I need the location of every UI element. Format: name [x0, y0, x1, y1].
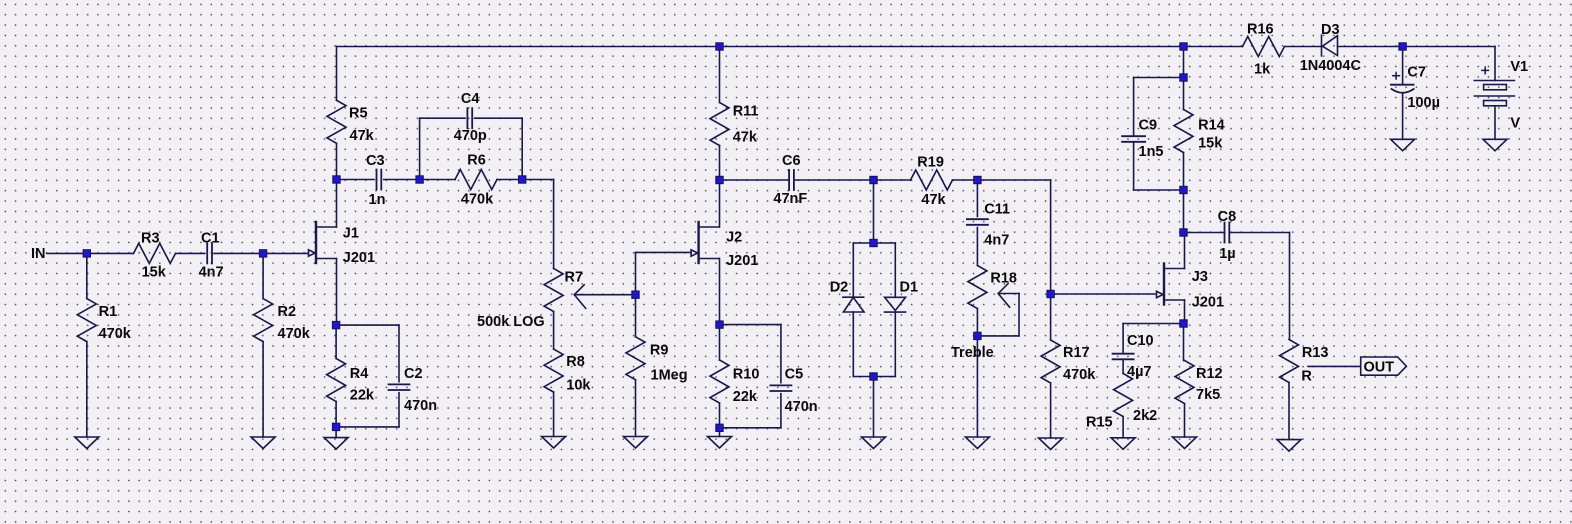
label R9 designator — [650, 342, 669, 358]
resistor R9 — [626, 295, 645, 437]
label C4 value 470p — [454, 128, 487, 144]
label R10 designator — [733, 367, 760, 383]
svg-text:470n: 470n — [785, 399, 818, 415]
resistor R5 — [327, 47, 346, 180]
label R4 value 22k — [350, 388, 375, 404]
svg-text:470k: 470k — [1063, 367, 1096, 383]
svg-text:C1: C1 — [201, 231, 220, 247]
svg-text:Treble: Treble — [951, 345, 994, 361]
svg-text:V: V — [1510, 116, 1520, 132]
svg-text:J201: J201 — [1192, 295, 1224, 311]
label J3 designator — [1192, 269, 1208, 285]
resistor R10 — [710, 325, 729, 428]
svg-text:500k LOG: 500k LOG — [477, 314, 545, 330]
resistor R19 — [874, 170, 978, 190]
svg-text:15k: 15k — [1198, 136, 1223, 152]
label R1 value 470k — [99, 326, 132, 342]
svg-text:R9: R9 — [650, 342, 669, 358]
label D1 designator — [900, 280, 919, 296]
node J1 source junction — [332, 321, 339, 328]
capacitor C10 — [1113, 324, 1184, 374]
label J2 designator — [726, 230, 742, 246]
label C7 designator — [1407, 65, 1426, 81]
svg-text:C3: C3 — [366, 153, 385, 169]
ground diodes — [862, 437, 886, 449]
svg-text:R19: R19 — [917, 154, 944, 170]
label R13 designator — [1302, 345, 1329, 361]
svg-text:1n: 1n — [369, 192, 386, 208]
ground R15 — [1111, 438, 1135, 450]
resistor R6 — [420, 170, 523, 190]
transistor J2 — [691, 222, 719, 263]
node R6 right junction — [519, 176, 526, 183]
label C5 value 470n — [785, 399, 818, 415]
label J2 value J201 — [726, 253, 758, 269]
label R13 value R — [1301, 368, 1312, 384]
svg-text:R8: R8 — [566, 354, 585, 370]
svg-text:4µ7: 4µ7 — [1127, 364, 1151, 380]
label R3 value 15k — [142, 265, 167, 281]
svg-text:1N4004C: 1N4004C — [1300, 58, 1362, 74]
label C1 designator — [201, 231, 220, 247]
label R2 value 470k — [278, 326, 311, 342]
svg-text:22k: 22k — [733, 389, 758, 405]
resistor R2 — [254, 253, 273, 437]
label J3 value J201 — [1192, 295, 1224, 311]
wire gate J1 — [263, 252, 308, 254]
label R9 value 1Meg — [651, 368, 688, 384]
ground R9 — [624, 437, 648, 449]
label C1 value 4n7 — [199, 265, 224, 281]
label R16 designator — [1247, 22, 1274, 38]
label R6 value 470k — [461, 192, 494, 208]
node diode top junction — [870, 239, 877, 246]
wire R14 to C8 node — [1183, 190, 1185, 233]
potentiometer R7 — [544, 269, 563, 312]
capacitor C8 — [1184, 223, 1290, 340]
svg-text:7k5: 7k5 — [1196, 387, 1220, 403]
wire J3 source down — [1184, 300, 1186, 324]
svg-text:100µ: 100µ — [1407, 95, 1440, 111]
svg-text:C11: C11 — [984, 202, 1010, 218]
input net wire IN — [47, 252, 87, 254]
label J1 designator — [343, 226, 359, 242]
svg-text:R3: R3 — [141, 231, 160, 247]
label V1 designator — [1510, 59, 1528, 75]
capacitor C5 — [720, 325, 792, 428]
node R19 right junction — [974, 176, 981, 183]
label R19 value 47k — [921, 192, 946, 208]
ground R2 — [251, 437, 275, 449]
node A junction (R2 top) — [259, 250, 266, 257]
label C3 designator — [366, 153, 385, 169]
resistor R1 — [77, 253, 96, 437]
wire to J3 gate — [1051, 293, 1157, 295]
resistor R15 — [1114, 374, 1133, 438]
label R11 designator — [733, 104, 759, 120]
svg-text:R2: R2 — [278, 304, 297, 320]
node R14 bottom junction — [1180, 186, 1187, 193]
plus sign C7 — [1393, 72, 1400, 79]
node C6 right junction — [870, 176, 877, 183]
wire J2 source down — [719, 259, 721, 325]
capacitor C11 — [967, 180, 988, 266]
svg-text:C8: C8 — [1218, 209, 1237, 225]
label R8 designator — [566, 354, 585, 370]
svg-text:470k: 470k — [461, 192, 494, 208]
node J3 gate junction — [1047, 290, 1054, 297]
label C11 value 4n7 — [984, 233, 1009, 249]
svg-text:C6: C6 — [782, 153, 801, 169]
label J1 value J201 — [343, 250, 375, 266]
label C5 designator — [785, 367, 804, 383]
ground R12 — [1173, 437, 1197, 449]
resistor R17 — [1041, 294, 1060, 438]
svg-text:OUT: OUT — [1364, 360, 1395, 376]
svg-text:J1: J1 — [343, 226, 359, 242]
ground R17 — [1039, 438, 1063, 450]
label C10 value 4µ7 — [1127, 364, 1151, 380]
node J2 source junction — [716, 321, 723, 328]
svg-text:D1: D1 — [900, 280, 919, 296]
ground R1 — [75, 437, 99, 449]
svg-text:47k: 47k — [921, 192, 946, 208]
svg-text:1n5: 1n5 — [1139, 144, 1164, 160]
label C2 designator — [404, 366, 423, 382]
svg-text:R10: R10 — [733, 367, 760, 383]
label R5 designator — [349, 106, 368, 122]
ground V1 — [1483, 139, 1507, 151]
label R2 designator — [278, 304, 297, 320]
svg-text:C10: C10 — [1127, 333, 1154, 349]
label R18 designator — [990, 271, 1017, 287]
svg-text:4n7: 4n7 — [984, 233, 1009, 249]
capacitor C2 — [336, 325, 409, 427]
node C7 junction — [1399, 43, 1406, 50]
top power rail wire — [337, 46, 1243, 48]
svg-text:V1: V1 — [1510, 59, 1528, 75]
label R14 value 15k — [1198, 136, 1223, 152]
resistor R8 — [544, 312, 563, 437]
battery V1 — [1474, 81, 1514, 140]
capacitor C6 — [720, 170, 874, 190]
wire rail to V1 — [1403, 47, 1495, 81]
label R15 value 2k2 — [1133, 408, 1157, 424]
node R14 top junction — [1180, 74, 1187, 81]
svg-text:R4: R4 — [350, 366, 369, 382]
wire J1 source down — [336, 259, 338, 326]
svg-text:R18: R18 — [990, 271, 1017, 287]
node C8 junction — [1180, 229, 1187, 236]
svg-text:R13: R13 — [1302, 345, 1329, 361]
ground R10 — [708, 428, 732, 448]
capacitor C7 — [1391, 47, 1414, 140]
ground R13 — [1277, 440, 1301, 452]
wire diode top bar — [853, 243, 895, 297]
svg-text:470k: 470k — [99, 326, 132, 342]
label C8 value 1µ — [1219, 246, 1235, 262]
label R11 value 47k — [733, 130, 758, 146]
ground C7 — [1391, 139, 1415, 151]
wire bus to J3 gate column — [977, 180, 1050, 294]
svg-text:R11: R11 — [733, 104, 759, 120]
resistor R13 — [1280, 340, 1299, 440]
node J3 source junction — [1180, 320, 1187, 327]
svg-text:R: R — [1301, 368, 1312, 384]
transistor J3 — [1157, 264, 1185, 305]
wiper arrow R18 — [977, 284, 1019, 336]
label R16 value 1k — [1254, 62, 1271, 78]
label R7 value 500k LOG — [477, 314, 545, 330]
node R6 left junction — [416, 176, 423, 183]
svg-text:15k: 15k — [142, 265, 167, 281]
svg-text:R14: R14 — [1198, 118, 1225, 134]
svg-text:R17: R17 — [1063, 345, 1090, 361]
label C11 designator — [984, 202, 1010, 218]
node R7 wiper junction — [632, 291, 639, 298]
ground R8 — [542, 437, 566, 449]
wire rail down to R14 — [1183, 47, 1185, 78]
capacitor C9 — [1122, 78, 1183, 191]
node IN junction — [83, 250, 90, 257]
wire diode bottom bar — [853, 312, 895, 377]
svg-text:470p: 470p — [454, 128, 487, 144]
label R7 designator — [565, 270, 584, 286]
label C2 value 470n — [404, 398, 437, 414]
label R1 designator — [99, 304, 118, 320]
wiper arrow R7 — [574, 285, 635, 309]
ground R4 — [324, 438, 348, 450]
wire to OUT port — [1308, 365, 1360, 367]
svg-text:22k: 22k — [350, 388, 375, 404]
node rail R11 junction — [716, 43, 723, 50]
label R19 designator — [917, 154, 944, 170]
svg-text:R7: R7 — [565, 270, 584, 286]
label D3 designator — [1321, 22, 1340, 38]
label R3 designator — [141, 231, 160, 247]
svg-text:470n: 470n — [404, 398, 437, 414]
node rail R14 junction — [1180, 43, 1187, 50]
svg-text:1µ: 1µ — [1219, 246, 1235, 262]
label R5 value 47k — [350, 128, 375, 144]
svg-text:D2: D2 — [830, 280, 849, 296]
label C7 value 100µ — [1407, 95, 1440, 111]
potentiometer R18 — [968, 266, 987, 438]
label R8 value 10k — [566, 378, 591, 394]
svg-text:47k: 47k — [733, 130, 758, 146]
node R4 bottom junction — [332, 423, 339, 430]
svg-text:J201: J201 — [343, 250, 375, 266]
node R11 bottom junction — [716, 176, 723, 183]
node diode bottom junction — [870, 373, 877, 380]
wire diode branch — [873, 180, 875, 243]
svg-text:10k: 10k — [566, 378, 591, 394]
label R10 value 22k — [733, 389, 758, 405]
svg-text:47nF: 47nF — [773, 191, 807, 207]
label port IN value IN — [31, 246, 46, 262]
wire to R7 — [522, 180, 553, 269]
svg-text:C7: C7 — [1407, 65, 1426, 81]
svg-text:D3: D3 — [1321, 22, 1340, 38]
diode D1 — [885, 297, 906, 312]
label C10 designator — [1127, 333, 1154, 349]
svg-text:R5: R5 — [349, 106, 368, 122]
diode D3 — [1285, 35, 1403, 56]
resistor R3 — [87, 243, 205, 263]
svg-text:J3: J3 — [1192, 269, 1208, 285]
label R6 designator — [467, 153, 486, 169]
node R10 bottom junction — [716, 424, 723, 431]
resistor R16 — [1243, 37, 1285, 57]
resistor R4 — [327, 325, 346, 427]
capacitor C4 — [420, 108, 523, 179]
label C6 designator — [782, 153, 801, 169]
svg-text:1Meg: 1Meg — [651, 368, 688, 384]
svg-text:R12: R12 — [1196, 366, 1223, 382]
capacitor C1 — [207, 243, 263, 263]
transistor J1 — [309, 222, 337, 263]
label C9 value 1n5 — [1139, 144, 1164, 160]
svg-text:IN: IN — [31, 246, 46, 262]
label R12 value 7k5 — [1196, 387, 1220, 403]
wire wiper to J2 gate — [636, 252, 692, 294]
label C6 value 47nF — [773, 191, 807, 207]
svg-text:C2: C2 — [404, 366, 423, 382]
capacitor C3 — [337, 170, 420, 190]
svg-text:C5: C5 — [785, 367, 804, 383]
svg-text:R6: R6 — [467, 153, 486, 169]
svg-text:1k: 1k — [1254, 62, 1271, 78]
ground R18 — [965, 437, 989, 449]
node C3 left junction — [333, 176, 340, 183]
diode D2 — [843, 297, 864, 312]
svg-text:470k: 470k — [278, 326, 311, 342]
svg-text:R16: R16 — [1247, 22, 1274, 38]
svg-text:2k2: 2k2 — [1133, 408, 1157, 424]
svg-text:R1: R1 — [99, 304, 118, 320]
svg-text:C9: C9 — [1139, 118, 1158, 134]
label R17 designator — [1063, 345, 1090, 361]
label D2 designator — [830, 280, 849, 296]
svg-text:4n7: 4n7 — [199, 265, 224, 281]
svg-text:J201: J201 — [726, 253, 758, 269]
svg-text:R15: R15 — [1086, 415, 1113, 431]
svg-text:J2: J2 — [726, 230, 742, 246]
resistor R12 — [1175, 324, 1194, 438]
port OUT flag — [1361, 357, 1407, 376]
wire J1 drain to node — [336, 180, 338, 228]
label R12 designator — [1196, 366, 1223, 382]
node R18 wiper junction — [974, 332, 981, 339]
plus sign V1 — [1482, 67, 1489, 74]
resistor R11 — [710, 47, 729, 181]
label C3 value 1n — [369, 192, 386, 208]
label R18 value Treble — [951, 345, 994, 361]
wire diode to ground — [873, 377, 875, 438]
wire J3 drain up — [1184, 233, 1186, 269]
svg-text:47k: 47k — [350, 128, 375, 144]
label R14 designator — [1198, 118, 1225, 134]
label C8 designator — [1218, 209, 1237, 225]
label R15 designator — [1086, 415, 1113, 431]
wire J2 drain up — [719, 180, 721, 227]
svg-text:C4: C4 — [461, 91, 480, 107]
label D3 value 1N4004C — [1300, 58, 1362, 74]
label V1 value V — [1510, 116, 1520, 132]
label C9 designator — [1139, 118, 1158, 134]
resistor R14 — [1174, 78, 1193, 191]
label R4 designator — [350, 366, 369, 382]
label C4 designator — [461, 91, 480, 107]
label R17 value 470k — [1063, 367, 1096, 383]
